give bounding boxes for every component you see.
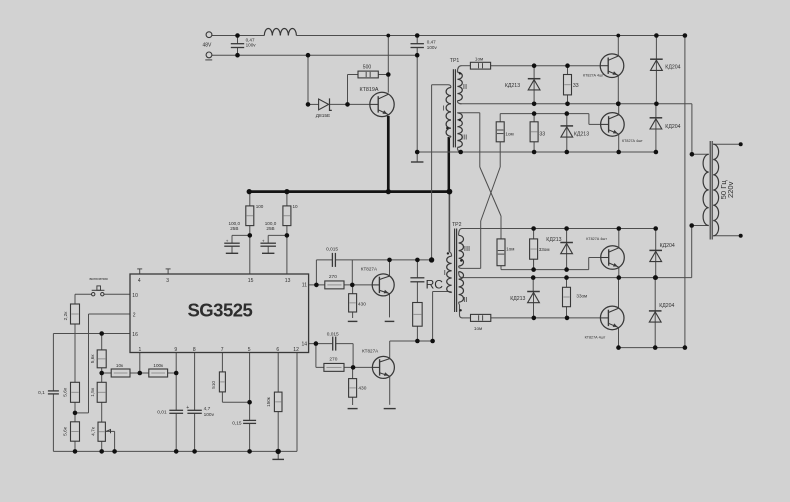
svg-text:4: 4 <box>138 278 141 284</box>
svg-text:270: 270 <box>329 357 337 363</box>
svg-text:КД213: КД213 <box>505 83 520 89</box>
svg-text:0,01: 0,01 <box>157 410 167 416</box>
svg-text:150к: 150к <box>266 396 271 407</box>
svg-text:ТР1: ТР1 <box>450 58 460 64</box>
svg-text:1ом: 1ом <box>475 56 483 61</box>
svg-text:33: 33 <box>573 83 579 89</box>
svg-text:6: 6 <box>276 347 279 353</box>
svg-text:1ом: 1ом <box>506 247 514 252</box>
svg-text:11: 11 <box>302 282 307 288</box>
svg-text:0,015: 0,015 <box>326 246 338 252</box>
svg-text:100v: 100v <box>427 45 438 50</box>
svg-text:0,1: 0,1 <box>38 390 45 396</box>
svg-text:1ом: 1ом <box>474 326 482 331</box>
svg-text:430: 430 <box>358 385 366 391</box>
svg-text:+: + <box>226 239 229 244</box>
svg-text:7: 7 <box>221 347 224 353</box>
svg-text:8: 8 <box>193 347 196 353</box>
svg-text:500: 500 <box>363 64 372 70</box>
svg-text:КД204: КД204 <box>659 303 674 309</box>
svg-text:33ом: 33ом <box>576 293 587 298</box>
svg-text:9: 9 <box>174 347 177 353</box>
svg-text:25В: 25В <box>230 226 238 231</box>
svg-text:КТ827А: КТ827А <box>361 267 378 272</box>
svg-text:I: I <box>443 104 445 113</box>
svg-text:5: 5 <box>248 347 251 353</box>
svg-text:КД213: КД213 <box>546 237 561 243</box>
svg-text:33ом: 33ом <box>539 247 550 252</box>
svg-text:III: III <box>464 244 470 253</box>
svg-text:включения: включения <box>90 277 108 281</box>
svg-text:III: III <box>461 132 467 141</box>
svg-text:SG3525: SG3525 <box>187 300 252 321</box>
svg-text:КД204: КД204 <box>665 64 680 70</box>
svg-text:2: 2 <box>133 313 136 319</box>
svg-text:12: 12 <box>293 347 299 353</box>
svg-text:14: 14 <box>301 342 307 348</box>
svg-text:5,6к: 5,6к <box>63 426 69 436</box>
svg-text:15: 15 <box>248 278 254 284</box>
svg-text:I: I <box>444 268 446 277</box>
svg-text:II: II <box>463 295 467 304</box>
svg-text:430: 430 <box>358 301 366 307</box>
svg-text:5,6к: 5,6к <box>90 354 96 364</box>
svg-text:1,5к: 1,5к <box>90 387 96 397</box>
svg-text:1ом: 1ом <box>505 132 513 137</box>
svg-text:+: + <box>262 239 265 244</box>
svg-text:КТ827А 4шт: КТ827А 4шт <box>583 73 604 77</box>
svg-text:КТ827А: КТ827А <box>362 349 379 354</box>
svg-text:КТ827А 4шт: КТ827А 4шт <box>585 336 606 340</box>
svg-text:270: 270 <box>329 274 337 280</box>
svg-text:КД213: КД213 <box>574 132 589 138</box>
svg-text:10: 10 <box>132 293 138 299</box>
svg-text:КД204: КД204 <box>660 243 675 249</box>
svg-text:510: 510 <box>211 381 216 389</box>
svg-text:10к: 10к <box>116 363 124 368</box>
svg-text:RC: RC <box>426 278 444 292</box>
svg-text:16: 16 <box>132 332 138 338</box>
svg-text:0,15: 0,15 <box>232 421 242 427</box>
svg-text:100v: 100v <box>246 43 257 48</box>
svg-text:13: 13 <box>285 278 291 284</box>
svg-text:220v: 220v <box>726 181 735 198</box>
svg-text:4,7к: 4,7к <box>91 426 97 436</box>
svg-text:1: 1 <box>139 347 142 353</box>
svg-text:10: 10 <box>293 204 299 209</box>
svg-text:3: 3 <box>166 278 169 284</box>
svg-text:2,2к: 2,2к <box>63 311 69 321</box>
svg-text:100v: 100v <box>204 412 215 418</box>
svg-text:КД213: КД213 <box>510 296 525 302</box>
svg-text:33: 33 <box>539 132 545 138</box>
svg-text:0,015: 0,015 <box>327 331 339 337</box>
svg-text:Д815Е: Д815Е <box>316 113 330 119</box>
svg-text:5,6к: 5,6к <box>63 387 69 397</box>
svg-text:КТ827А 4шт: КТ827А 4шт <box>586 237 607 241</box>
svg-text:+: + <box>186 405 189 411</box>
svg-text:48V: 48V <box>203 42 213 48</box>
svg-text:КТ827А 4шт: КТ827А 4шт <box>622 139 643 143</box>
svg-text:КД204: КД204 <box>665 124 680 130</box>
svg-text:100к: 100к <box>153 363 164 368</box>
svg-text:ТР2: ТР2 <box>452 222 462 228</box>
svg-text:25В: 25В <box>266 226 274 231</box>
svg-text:КТ819А: КТ819А <box>360 87 379 93</box>
svg-text:100: 100 <box>256 204 264 209</box>
svg-text:4,7: 4,7 <box>204 406 211 412</box>
svg-text:II: II <box>463 82 467 91</box>
